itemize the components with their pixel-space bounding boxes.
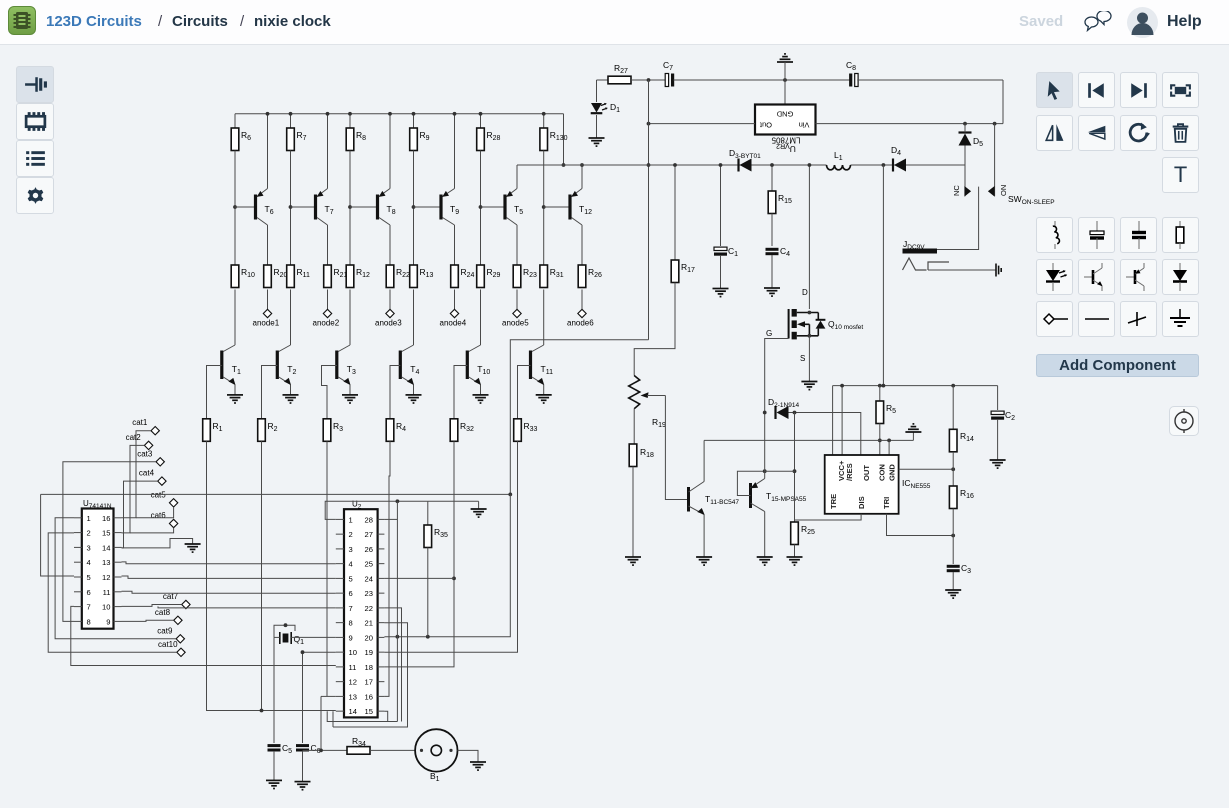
- transistor T11 NPN: [532, 345, 544, 352]
- svg-text:R11: R11: [297, 267, 311, 279]
- svg-text:anode6: anode6: [567, 319, 594, 328]
- svg-text:15: 15: [365, 707, 373, 716]
- earth at jack: [996, 264, 1001, 277]
- wire C8 to right corner: [857, 79, 1003, 81]
- svg-text:T: T: [1173, 162, 1186, 187]
- wire base T3: [322, 366, 337, 419]
- ground T4 emitter: [406, 395, 422, 403]
- crystal Q1: [279, 632, 281, 644]
- wire to anode3 port: [389, 290, 391, 310]
- transistor T8 PNP anode driver: [350, 206, 378, 208]
- resistor R14: [952, 386, 954, 430]
- transistor T2 NPN: [279, 345, 291, 352]
- ground C3: [945, 590, 961, 598]
- pin 19 U2: [378, 651, 385, 653]
- svg-text:Q10 mosfet: Q10 mosfet: [828, 319, 863, 331]
- ground C4: [764, 288, 780, 296]
- transistor T15-MPSA55: [749, 483, 752, 508]
- svg-text:6: 6: [87, 588, 91, 597]
- svg-text:D4: D4: [891, 145, 901, 157]
- wire base T4: [390, 366, 400, 419]
- svg-text:C1: C1: [728, 246, 738, 258]
- pin 3 U2: [336, 548, 344, 550]
- wire C7 to GND stem junction: [674, 79, 851, 81]
- svg-text:R20: R20: [274, 267, 288, 279]
- svg-text:14: 14: [102, 543, 110, 552]
- wire Out line: [649, 123, 756, 125]
- ground (inverted) near 555: [912, 432, 914, 440]
- svg-text:T1: T1: [232, 364, 241, 376]
- pin 14 U2: [336, 710, 344, 712]
- svg-text:D2-1N914: D2-1N914: [768, 397, 799, 409]
- resistor R34: [347, 747, 370, 755]
- pin 26 U2: [378, 548, 385, 550]
- wire emitter up col4: [454, 114, 456, 189]
- pin 5 U2: [336, 577, 344, 579]
- svg-text:C2: C2: [1005, 410, 1015, 422]
- svg-text:R1: R1: [213, 421, 223, 433]
- node cat4: [158, 477, 166, 485]
- resistor R7 base resistor col2: [290, 114, 292, 128]
- wire GND pin of regulator: [784, 80, 786, 105]
- svg-text:R12: R12: [356, 267, 370, 279]
- svg-text:C7: C7: [663, 60, 673, 72]
- svg-text:R5: R5: [886, 403, 896, 415]
- wire U2 pin28 riser: [384, 518, 397, 520]
- ground R25: [787, 557, 803, 565]
- wire T12 emitter to 5V row: [581, 165, 583, 189]
- svg-text:R22: R22: [396, 267, 410, 279]
- svg-text:GND: GND: [776, 110, 793, 119]
- pin 11 U1: [114, 591, 122, 593]
- capacitor C2: [997, 386, 999, 410]
- transistor T4 NPN: [402, 345, 414, 352]
- pin 2 U2: [336, 533, 344, 535]
- svg-text:Out: Out: [759, 121, 772, 130]
- resistor R32: [450, 419, 458, 442]
- capacitor C4: [766, 249, 779, 253]
- pin 28 U2: [378, 518, 385, 520]
- ground below LED D1: [589, 138, 605, 146]
- wire T15 base bracket: [737, 471, 764, 495]
- wire R32 column to U2 pin18: [384, 441, 454, 667]
- svg-text:25: 25: [365, 560, 373, 569]
- pin 8 U1: [74, 620, 82, 622]
- svg-text:6: 6: [349, 589, 353, 598]
- svg-text:R19: R19: [652, 417, 666, 429]
- node cat1: [151, 427, 159, 435]
- svg-text:20: 20: [365, 633, 373, 642]
- capacitor C7: [665, 74, 668, 87]
- node anode4: [450, 309, 458, 317]
- Q10 body diode: [816, 319, 826, 321]
- wire VCC rail of 555: [833, 385, 998, 387]
- svg-text:R26: R26: [588, 267, 602, 279]
- svg-text:9: 9: [349, 633, 353, 642]
- resistor R1: [203, 419, 211, 442]
- pin 10 U1: [114, 606, 122, 608]
- svg-text:9: 9: [106, 617, 110, 626]
- wire R27 to C7: [631, 79, 666, 81]
- pin 1 U1: [74, 517, 82, 519]
- svg-text:TRI: TRI: [882, 497, 891, 509]
- resistor R13: [410, 265, 418, 288]
- svg-text:7: 7: [349, 604, 353, 613]
- ground T11 emitter: [536, 395, 552, 403]
- connector J_DC9V: [903, 249, 938, 254]
- resistor R4: [386, 419, 394, 442]
- svg-text:cat2: cat2: [126, 433, 142, 442]
- wire cat6 stub: [130, 528, 174, 533]
- wire R4 column to U2 pin16: [384, 441, 390, 696]
- wire cat2 to U1 pin15: [122, 445, 145, 533]
- wire T15 bracket to D2 node: [765, 470, 795, 472]
- wire collector col4 down to T4: [413, 290, 415, 346]
- resistor R3: [323, 419, 331, 442]
- svg-text:1: 1: [87, 514, 91, 523]
- resistor R10: [231, 265, 239, 288]
- node anode2: [323, 309, 331, 317]
- wire pot wiper to T11 base: [665, 396, 687, 500]
- pin 16 U2: [378, 695, 385, 697]
- svg-text:16: 16: [102, 514, 110, 523]
- svg-text:T12: T12: [579, 204, 592, 216]
- wire rail corner to 5V row: [563, 114, 565, 165]
- ground R18: [625, 557, 641, 565]
- wire U2 pin15 wrap: [384, 711, 387, 721]
- resistor R31: [540, 265, 548, 288]
- wire crystal right to U2 pin9: [291, 636, 336, 638]
- svg-text:T2: T2: [287, 364, 296, 376]
- pin 9 U2: [336, 636, 344, 638]
- resistor R22: [386, 265, 394, 288]
- svg-text:10: 10: [349, 648, 357, 657]
- svg-text:cat8: cat8: [155, 608, 171, 617]
- svg-text:R27: R27: [614, 63, 628, 75]
- wire R2 column join: [261, 441, 263, 710]
- wire Q10 source to ground: [808, 336, 810, 382]
- wire bus to U1 pin5: [41, 494, 74, 576]
- svg-text:3: 3: [87, 543, 91, 552]
- capacitor C8: [849, 74, 852, 87]
- ground C1: [713, 289, 729, 297]
- pin 18 U2: [378, 666, 385, 668]
- svg-text:23: 23: [365, 589, 373, 598]
- wire R33 column to U2 pin19: [384, 441, 517, 652]
- resistor R24: [451, 265, 459, 288]
- svg-text:R23: R23: [523, 267, 537, 279]
- pin 3 U1: [74, 546, 82, 548]
- ground T3 emitter: [342, 395, 358, 403]
- wire R3 col pin13 branch: [327, 695, 336, 697]
- wire 5V row: [517, 164, 827, 166]
- resistor R21: [324, 265, 332, 288]
- jack sleeve contact: [928, 262, 949, 270]
- svg-text:16: 16: [365, 692, 373, 701]
- svg-text:8: 8: [87, 617, 91, 626]
- wire C6 column: [302, 652, 304, 743]
- wire cat5 stub: [136, 507, 174, 518]
- capacitor C1: [720, 165, 722, 246]
- wire collector down col6: [581, 225, 583, 265]
- ground near U1 pin14: [122, 539, 193, 548]
- wire T11 collector bus to GND pin: [704, 439, 913, 441]
- ground Q10 source: [801, 382, 817, 390]
- svg-text:13: 13: [102, 558, 110, 567]
- svg-text:ON: ON: [999, 185, 1008, 196]
- wire 5V bus to logic: [41, 493, 511, 495]
- resistor R28 base resistor col5: [480, 114, 482, 128]
- svg-text:2: 2: [87, 529, 91, 538]
- svg-text:R2: R2: [268, 421, 278, 433]
- wire R34 to B1: [370, 749, 415, 751]
- wire base T10: [454, 366, 467, 419]
- wire U2 pin24 to R32 column: [384, 577, 454, 579]
- wire collector col6 down to T11: [543, 290, 545, 346]
- wire switch pole: [937, 187, 979, 250]
- ground C5: [266, 780, 282, 788]
- wire collector down col5: [516, 225, 518, 265]
- transistor T6 PNP anode driver: [235, 206, 256, 208]
- node cat7: [182, 600, 190, 608]
- pin 6 U1: [74, 591, 82, 593]
- pin 6 U2: [336, 592, 344, 594]
- svg-text:R7: R7: [297, 130, 307, 142]
- resistor R5: [879, 386, 881, 401]
- wire U1 pin7 to bottom bus: [71, 606, 336, 665]
- wire GND pin drop: [888, 440, 890, 455]
- svg-text:28: 28: [365, 515, 373, 524]
- wire 555 right pin to divider: [899, 468, 954, 470]
- svg-text:R3: R3: [333, 421, 343, 433]
- wire DIS pin: [795, 514, 862, 520]
- svg-text:D3-BYT01: D3-BYT01: [729, 148, 761, 160]
- svg-text:D: D: [802, 288, 808, 297]
- svg-text:SWON-SLEEP: SWON-SLEEP: [1008, 194, 1055, 206]
- svg-text:cat1: cat1: [132, 418, 148, 427]
- pin 27 U2: [378, 533, 385, 535]
- wire T11 collector: [703, 440, 705, 481]
- wire R27 input: [597, 79, 609, 81]
- wire base T11: [518, 366, 531, 419]
- transistor T11-BC547: [687, 487, 690, 512]
- wire C5 column: [273, 637, 275, 743]
- wire right corner down to Vin: [1002, 80, 1004, 124]
- svg-text:8: 8: [349, 619, 353, 628]
- transistor T10 NPN: [469, 345, 481, 352]
- wire emitter up col1: [267, 114, 269, 189]
- svg-text:26: 26: [365, 545, 373, 554]
- svg-text:R8: R8: [356, 130, 366, 142]
- resistor R23: [513, 265, 521, 288]
- left toolbar: [16, 66, 54, 103]
- wire R14-R16: [952, 452, 954, 486]
- resistor R130 base resistor col6: [543, 114, 545, 128]
- wire base T2: [262, 366, 278, 419]
- svg-text:T9: T9: [450, 204, 459, 216]
- resistor R12: [346, 265, 354, 288]
- wire 555 supply drop: [882, 165, 884, 386]
- wire U2 pin10 to C6: [303, 651, 336, 653]
- op-amp U2 28-pin MCU: [344, 509, 378, 717]
- wire D2 to OUT pin of 555: [789, 413, 861, 456]
- wire base column col5: [480, 151, 482, 266]
- pin 12 U2: [336, 681, 344, 683]
- wire R16 to C3: [952, 509, 954, 565]
- ground top (inverted) above regulator: [777, 54, 793, 62]
- node anode1: [263, 309, 271, 317]
- wire collector col2 down to T2: [290, 290, 292, 346]
- wire T15 collector ground: [764, 512, 766, 558]
- svg-text:R13: R13: [420, 267, 434, 279]
- wire Out column down: [648, 80, 650, 340]
- svg-text:TRE: TRE: [829, 494, 838, 509]
- svg-text:GND: GND: [888, 464, 897, 481]
- pin 22 U2: [378, 607, 385, 609]
- wire collector down col2: [327, 225, 329, 265]
- wire MOSFET drain column: [808, 165, 810, 309]
- resistor R26: [578, 265, 586, 288]
- svg-text:NC: NC: [952, 185, 961, 196]
- svg-text:7: 7: [87, 603, 91, 612]
- svg-text:R33: R33: [524, 421, 538, 433]
- pin 24 U2: [378, 577, 385, 579]
- capacitor C6: [296, 746, 309, 750]
- svg-text:anode2: anode2: [313, 319, 340, 328]
- svg-text:19: 19: [365, 648, 373, 657]
- svg-text:R24: R24: [461, 267, 475, 279]
- resistor R6 base resistor col1: [234, 114, 236, 128]
- wire base column col1: [234, 151, 236, 266]
- ground T1 emitter: [227, 395, 243, 403]
- resistor R18: [629, 444, 637, 467]
- svg-text:R15: R15: [778, 193, 792, 205]
- svg-text:T4: T4: [410, 364, 419, 376]
- ground right of U2: [471, 509, 487, 517]
- svg-text:anode1: anode1: [253, 319, 280, 328]
- svg-text:4: 4: [349, 560, 353, 569]
- diode D2-1N914: [774, 406, 776, 419]
- pin 9 U1: [114, 620, 122, 622]
- wire cat3 to U1 pin8: [63, 462, 156, 622]
- svg-text:Vin: Vin: [799, 121, 810, 130]
- svg-text:B1: B1: [430, 771, 440, 783]
- wire under-U2 wrap A: [327, 711, 397, 721]
- wire cat4 to U1 pin14 node: [122, 481, 158, 548]
- LED D1 indicator: [596, 80, 598, 102]
- svg-text:anode3: anode3: [375, 319, 402, 328]
- wire 555 pin TRE: [832, 386, 834, 455]
- capacitor C5: [268, 746, 281, 750]
- svg-text:R29: R29: [487, 267, 501, 279]
- svg-text:C4: C4: [780, 246, 790, 258]
- svg-text:11: 11: [103, 588, 111, 597]
- svg-text:R9: R9: [420, 130, 430, 142]
- resistor R33: [514, 419, 522, 442]
- pin 5 U1: [74, 576, 82, 578]
- svg-text:13: 13: [349, 692, 357, 701]
- svg-text:CON: CON: [878, 464, 887, 481]
- wire R1 column to bottom bus: [207, 441, 336, 710]
- transistor T9 PNP anode driver: [414, 206, 442, 208]
- node anode6: [578, 309, 586, 317]
- svg-text:T11-BC547: T11-BC547: [705, 494, 739, 506]
- node cat10: [177, 648, 185, 656]
- wire B1 to ground: [458, 750, 479, 762]
- svg-text:R35: R35: [434, 527, 448, 539]
- wire emitter up col3: [389, 114, 391, 189]
- pin 23 U2: [378, 592, 385, 594]
- svg-text:R32: R32: [460, 421, 474, 433]
- svg-text:R17: R17: [681, 262, 695, 274]
- pin 13 U2: [336, 695, 344, 697]
- ground T2 emitter: [283, 395, 299, 403]
- svg-text:22: 22: [365, 604, 373, 613]
- wire U1 pin12 to U2 pin5: [122, 576, 336, 578]
- wire U1 pin1 to cat9: [55, 518, 176, 639]
- svg-text:anode4: anode4: [440, 319, 467, 328]
- potentiometer R19: [629, 376, 640, 409]
- svg-text:OUT: OUT: [862, 465, 871, 481]
- svg-text:1: 1: [349, 515, 353, 524]
- svg-text:R31: R31: [550, 267, 564, 279]
- wire under-U2 wrap B: [332, 711, 334, 727]
- svg-text:DIS: DIS: [857, 496, 866, 509]
- pin 17 U2: [378, 681, 385, 683]
- svg-text:G: G: [766, 329, 772, 338]
- pin 25 U2: [378, 563, 385, 565]
- svg-text:D5: D5: [973, 136, 983, 148]
- wire crystal left loop: [274, 636, 280, 638]
- svg-text:L1: L1: [834, 150, 843, 162]
- wire U2 pin7 link: [158, 606, 336, 608]
- pin 15 U1: [114, 532, 122, 534]
- wire base T1: [207, 366, 222, 419]
- wire 555 pin VCC: [841, 386, 843, 455]
- wire R25 ground: [794, 545, 796, 558]
- svg-text:18: 18: [365, 663, 373, 672]
- wire T5 emitter to 5V row: [516, 165, 518, 189]
- wire 5V drop to U2 pin20: [384, 494, 510, 636]
- wire collector col1 down to T1: [234, 290, 236, 346]
- right toolbar: [1036, 72, 1073, 108]
- wire collector down col3: [389, 225, 391, 265]
- pin 4 U1: [74, 561, 82, 563]
- wire collector col5 down to T10: [480, 290, 482, 346]
- switch SW_ON-SLEEP: [994, 124, 996, 197]
- wire to anode2 port: [327, 290, 329, 310]
- resistor R29: [477, 265, 485, 288]
- svg-text:T7: T7: [325, 204, 334, 216]
- wire R3 column down to R34 net: [326, 441, 328, 696]
- svg-text:27: 27: [365, 530, 373, 539]
- svg-text:11: 11: [349, 663, 357, 672]
- svg-text:T10: T10: [477, 364, 490, 376]
- svg-text:5: 5: [349, 574, 353, 583]
- pin 14 U1: [114, 546, 122, 548]
- svg-text:C5: C5: [282, 743, 292, 755]
- node anode3: [386, 309, 394, 317]
- wire T15 emitter to gate node: [764, 413, 766, 479]
- resistor R15: [771, 165, 773, 191]
- resistor R17: [674, 165, 676, 260]
- wire base column col6: [543, 151, 545, 266]
- wire R17 to pot: [634, 283, 675, 376]
- pin 20 U2: [378, 636, 385, 638]
- ground C2: [990, 460, 1006, 468]
- svg-text:JDC9V: JDC9V: [903, 239, 925, 251]
- resistor R25: [791, 522, 799, 545]
